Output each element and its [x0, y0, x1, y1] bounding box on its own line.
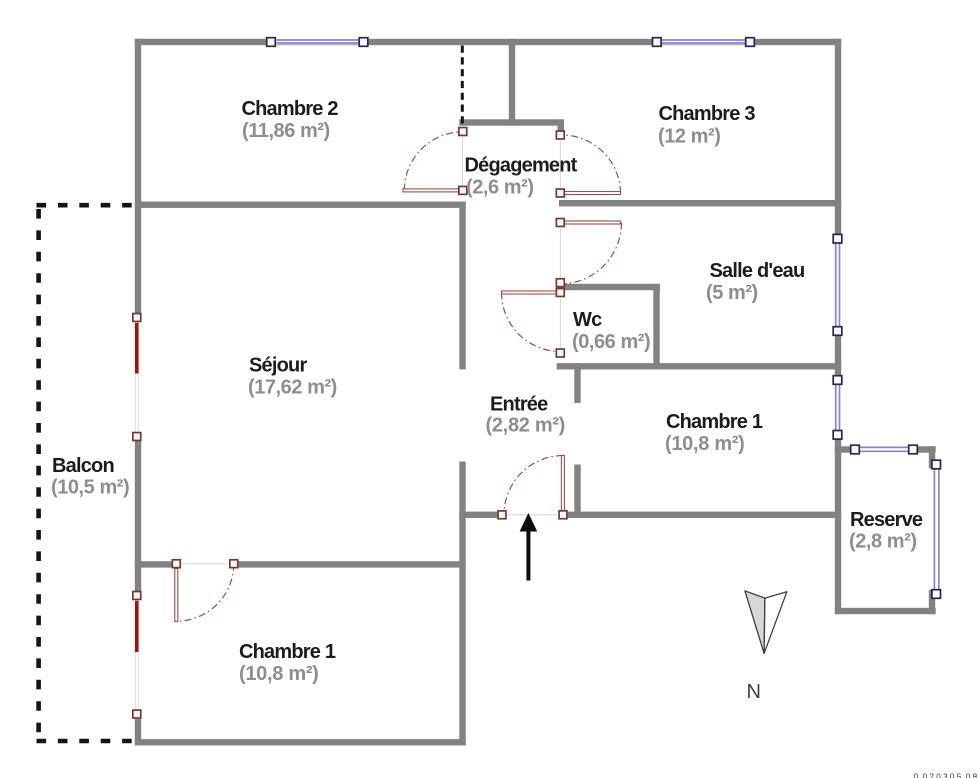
- window reserve top wall gap: [859, 446, 909, 453]
- wall chambre1-bottom top left: [135, 561, 172, 567]
- svg-text:Reserve: Reserve: [850, 509, 923, 531]
- svg-text:(10,8 m²): (10,8 m²): [665, 433, 745, 455]
- french window chambre1-bottom left frame line 1: [134, 652, 136, 709]
- door D3 salle d'eau: [556, 219, 621, 287]
- door entree threshold line: [508, 514, 558, 516]
- svg-text:Chambre 2: Chambre 2: [242, 98, 339, 120]
- french window chambre1-bottom left end square B: [133, 710, 141, 718]
- entry arrow: [520, 513, 538, 581]
- svg-text:Wc: Wc: [573, 309, 602, 331]
- door D1 chambre2 (from degagement): [403, 128, 467, 195]
- wall reserve bottom: [835, 608, 936, 614]
- door chambre2 jamb square B: [459, 186, 467, 194]
- window chambre1 right end square A: [833, 376, 842, 385]
- wall divider top middle chambre2-chambre3: [509, 39, 515, 126]
- svg-text:(2,8 m²): (2,8 m²): [849, 531, 917, 553]
- window reserve top glass line 1: [860, 446, 908, 448]
- balcony dashed edge left: [36, 209, 41, 743]
- french window chambre1-bottom left end square A: [133, 592, 141, 600]
- door entree jamb square A: [498, 511, 506, 519]
- wall wc right: [653, 284, 659, 370]
- french window FW2 left wall chambre1 bottom: [133, 591, 142, 719]
- window W5 reserve top: [851, 445, 918, 454]
- door entree jamb square B: [559, 511, 567, 519]
- french window chambre1-bottom left red door panel: [135, 601, 139, 652]
- door wc jamb square B: [556, 349, 564, 357]
- door chambre2 swing arc: [404, 132, 463, 191]
- wall chambre1-bottom top right: [238, 561, 466, 567]
- french window FW1 left wall sejour: [133, 313, 142, 441]
- door wc leaf: [502, 291, 559, 294]
- window salle d'eau right glass line 2: [839, 244, 841, 327]
- wall entree south left: [459, 512, 498, 518]
- window salle d'eau right wall gap: [834, 243, 841, 328]
- svg-text:Entrée: Entrée: [490, 394, 548, 416]
- window reserve top end square A: [851, 445, 860, 454]
- svg-text:(12 m²): (12 m²): [658, 126, 720, 148]
- door wc jamb square A: [556, 289, 564, 297]
- door chambre1-bottom leaf: [175, 569, 178, 622]
- north arrow: [745, 591, 787, 654]
- door salle d'eau leaf: [565, 221, 621, 224]
- door wc threshold line: [559, 298, 561, 348]
- window chambre1 right glass line 1: [835, 385, 837, 430]
- window salle d'eau right glass line 1: [835, 244, 837, 327]
- entry arrow head: [520, 513, 538, 532]
- door chambre1-bottom swing arc: [176, 564, 234, 622]
- window chambre3 top end square B: [746, 38, 755, 47]
- wall reserve right: [929, 446, 935, 614]
- door chambre3 leaf: [565, 192, 621, 195]
- window chambre1 right glass line 2: [839, 385, 841, 430]
- window reserve right glass line 2: [938, 470, 940, 590]
- wall entree-sejour vertical lower: [459, 462, 465, 746]
- french window chambre1-bottom left frame line 2: [137, 652, 139, 709]
- entry arrow shaft: [526, 531, 530, 581]
- french window chambre1-bottom left wall gap: [135, 591, 142, 719]
- window chambre3 top sill line: [662, 44, 745, 46]
- svg-text:Balcon: Balcon: [52, 455, 114, 477]
- wall sejour-degagement vertical: [459, 202, 465, 370]
- door D6 chambre1 bottom: [172, 560, 237, 622]
- balcony dashed outline: [37, 205, 135, 743]
- svg-text:(17,62 m²): (17,62 m²): [248, 377, 337, 399]
- balcony dashed edge top: [37, 203, 134, 208]
- window chambre2 top glass line 2: [277, 42, 359, 44]
- window chambre3 top glass line 1: [662, 39, 745, 41]
- wall entree stub upper: [574, 363, 580, 403]
- door chambre2 jamb square A: [459, 128, 467, 136]
- svg-text:(5 m²): (5 m²): [706, 282, 758, 304]
- door salle d'eau swing arc: [560, 223, 621, 285]
- door D2 chambre3 (from degagement): [556, 131, 620, 197]
- door chambre3 jamb square B: [556, 189, 564, 197]
- wall left exterior: [135, 39, 141, 746]
- french window sejour left frame line 1: [134, 374, 136, 432]
- dashed removed-wall chambre2 right: [461, 46, 464, 129]
- door wc swing arc: [502, 293, 561, 352]
- window reserve top glass line 2: [860, 450, 908, 452]
- window W3 right wall salle d'eau: [833, 234, 842, 335]
- window salle d'eau right end square A: [833, 234, 842, 243]
- wall wc top: [557, 284, 660, 290]
- svg-text:Chambre 3: Chambre 3: [659, 103, 756, 125]
- window W6 reserve right: [928, 460, 940, 598]
- door salle d'eau jamb square B: [556, 279, 564, 287]
- svg-text:Chambre 1: Chambre 1: [239, 641, 336, 663]
- wall chambre3-salledeau divider: [559, 200, 841, 206]
- svg-text:Dégagement: Dégagement: [465, 155, 578, 177]
- door entree leaf: [561, 456, 564, 511]
- door chambre3 swing arc: [560, 135, 620, 193]
- window reserve right end square A: [932, 460, 941, 469]
- svg-text:(10,8 m²): (10,8 m²): [239, 663, 319, 685]
- svg-text:(11,86 m²): (11,86 m²): [242, 120, 330, 142]
- door chambre1-bottom jamb square A: [172, 560, 180, 568]
- svg-text:Salle d'eau: Salle d'eau: [710, 260, 805, 282]
- window reserve right wall gap: [928, 469, 935, 591]
- north arrow right half: [764, 592, 787, 654]
- svg-text:Séjour: Séjour: [249, 355, 307, 377]
- window chambre1 right end square B: [833, 431, 842, 440]
- north arrow left half (shaded): [745, 591, 765, 654]
- window chambre3 top wall gap: [661, 38, 746, 45]
- window reserve right glass line 1: [933, 470, 935, 590]
- french window sejour left red door panel: [135, 323, 139, 374]
- svg-text:(10,5 m²): (10,5 m²): [51, 477, 129, 499]
- wall bottom exterior: [135, 739, 466, 745]
- door chambre3 jamb square A: [556, 131, 564, 139]
- balcony dashed edge bottom: [37, 739, 135, 744]
- door salle d'eau threshold line: [559, 228, 561, 278]
- window W2 top wall chambre3: [653, 38, 755, 47]
- svg-text:Chambre 1: Chambre 1: [666, 411, 763, 433]
- wall chambre1-right south long: [568, 512, 842, 518]
- door D5 entree (entry door): [498, 456, 567, 519]
- wall degagement top-right stub: [558, 119, 564, 131]
- wall chambre2-sejour divider: [135, 202, 466, 208]
- window reserve top end square B: [909, 445, 918, 454]
- window chambre2 top wall gap: [276, 38, 360, 45]
- window chambre2 top sill line: [277, 44, 359, 46]
- door chambre3 threshold line: [559, 141, 561, 188]
- door chambre1-bottom jamb square B: [230, 560, 238, 568]
- window chambre2 top end square B: [359, 38, 368, 47]
- wall salledeau-chambre1 long divider: [557, 363, 842, 369]
- svg-text:(2,6 m²): (2,6 m²): [466, 177, 534, 199]
- room labels: [51, 98, 923, 685]
- door D4 wc: [502, 289, 565, 357]
- french window sejour left wall gap: [135, 313, 142, 441]
- svg-text:N: N: [747, 681, 761, 703]
- door chambre1-bottom threshold line: [182, 563, 228, 565]
- wall right exterior: [835, 39, 841, 614]
- door entree swing arc: [504, 456, 563, 515]
- wall reserve top: [835, 446, 936, 452]
- door chambre2 threshold line: [462, 137, 464, 185]
- door chambre2 leaf: [403, 189, 461, 192]
- window chambre3 top end square A: [653, 38, 662, 47]
- french window sejour left end square B: [133, 433, 141, 441]
- svg-text:(2,82 m²): (2,82 m²): [486, 415, 566, 437]
- window reserve right end square B: [932, 590, 941, 599]
- window chambre2 top end square A: [267, 38, 276, 47]
- window salle d'eau right end square B: [833, 327, 842, 336]
- svg-text:0 0.2 0.3 0.5 0.8: 0 0.2 0.3 0.5 0.8: [914, 773, 978, 778]
- door salle d'eau jamb square A: [556, 219, 564, 227]
- wall entree stub lower: [574, 465, 580, 519]
- window W4 right wall chambre1: [833, 376, 842, 439]
- window chambre2 top glass line 1: [277, 39, 359, 41]
- svg-text:(0,66 m²): (0,66 m²): [572, 331, 650, 353]
- french window sejour left frame line 2: [137, 374, 139, 432]
- window chambre1 right wall gap: [834, 384, 841, 431]
- wall degagement top: [459, 119, 564, 125]
- window chambre3 top glass line 2: [662, 42, 745, 44]
- french window sejour left end square A: [133, 314, 141, 322]
- wall top exterior: [135, 39, 841, 45]
- window W1 top wall chambre2: [267, 38, 368, 47]
